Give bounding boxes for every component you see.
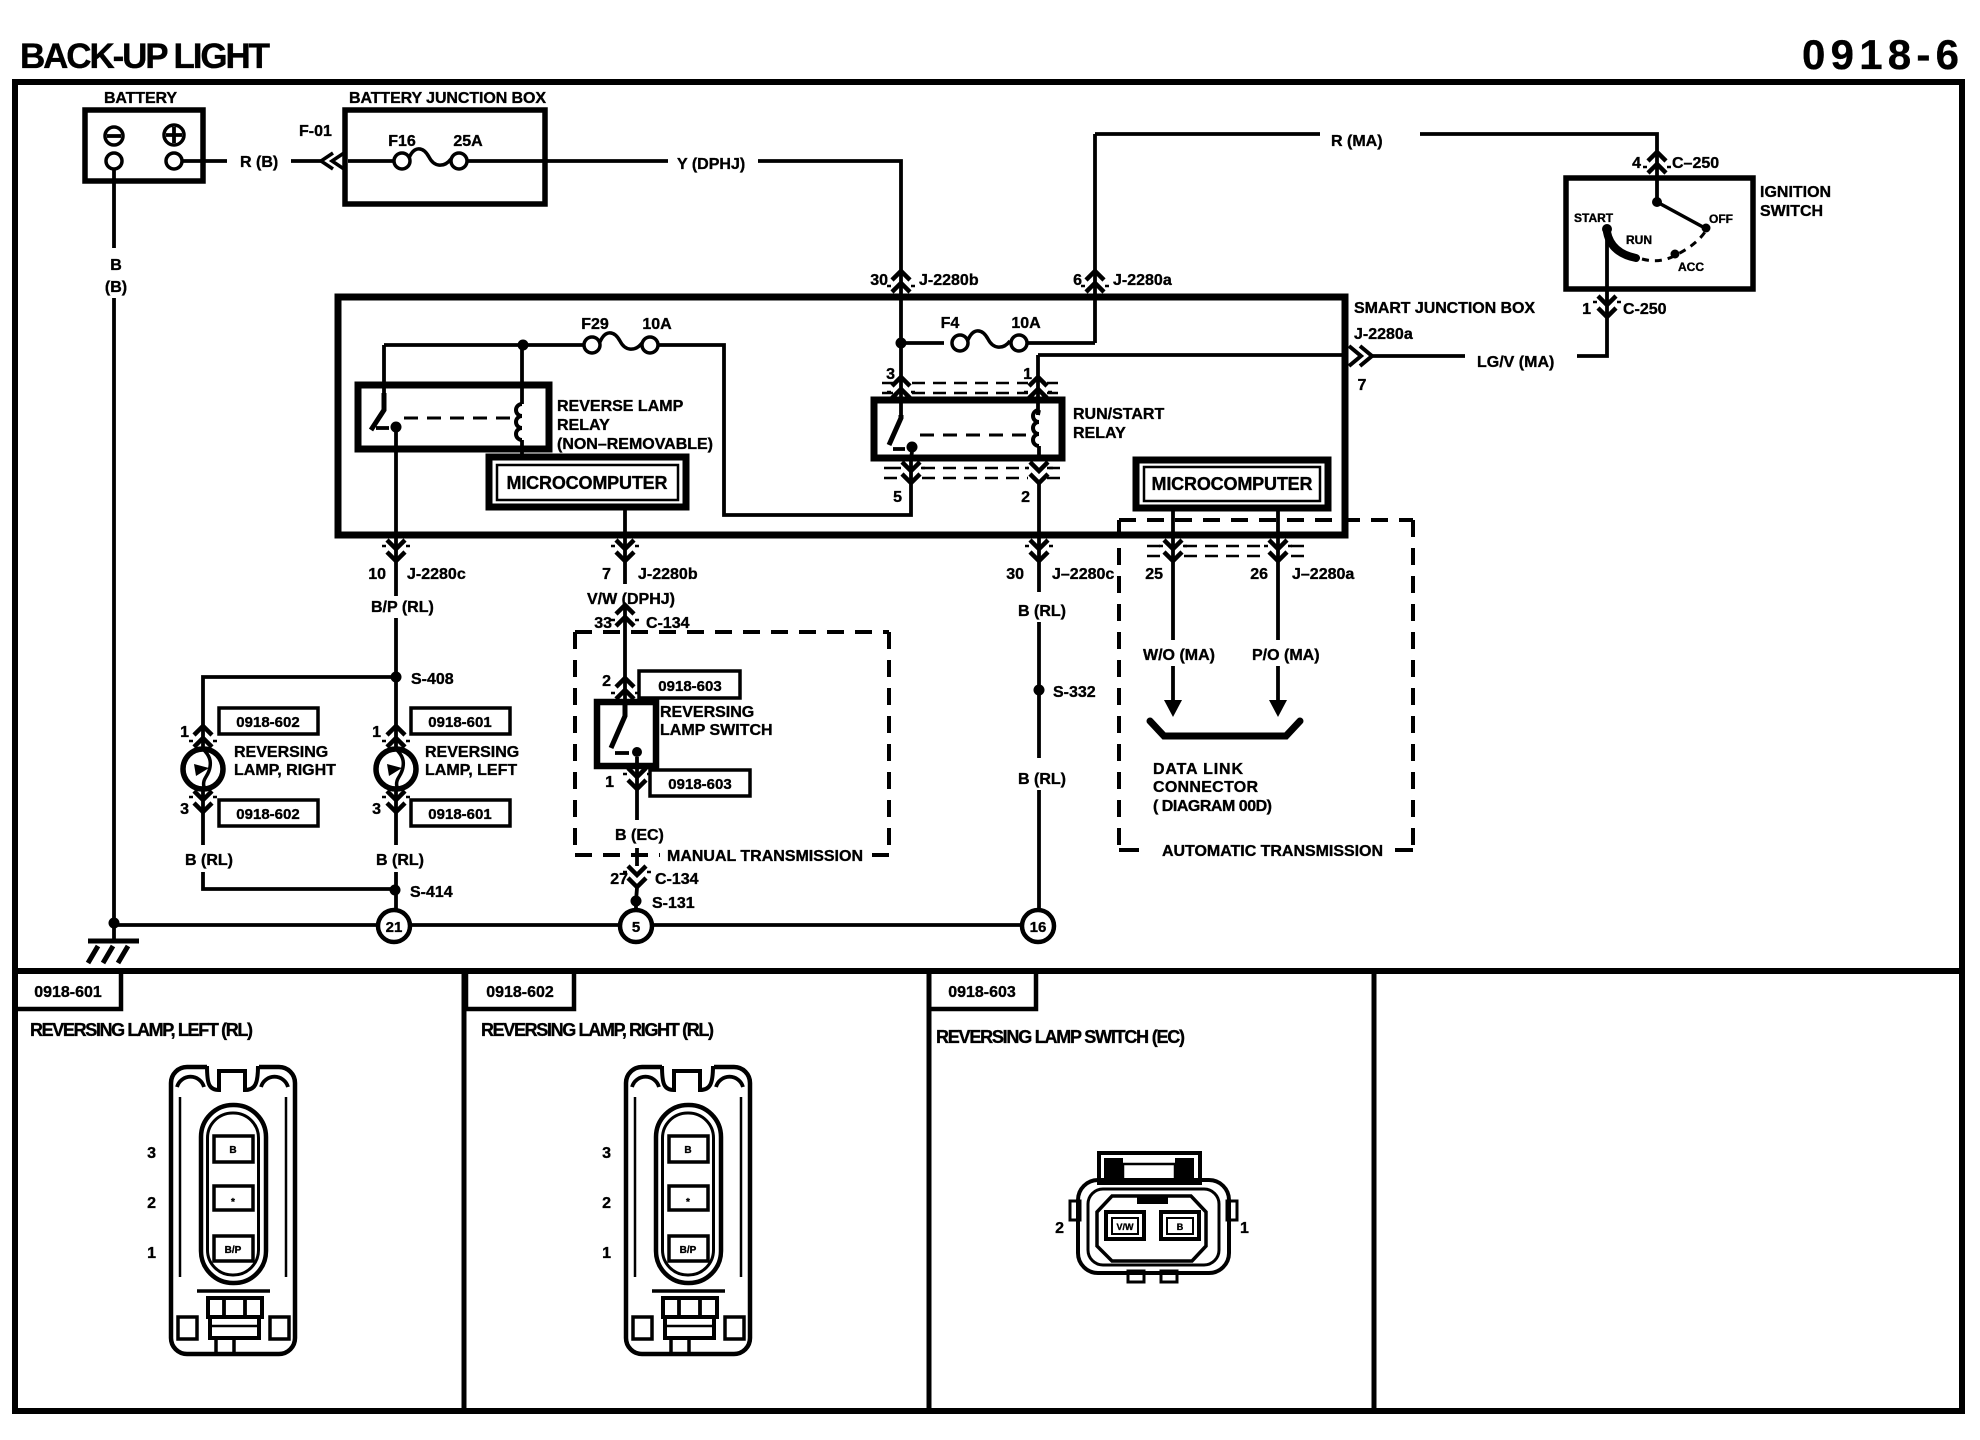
battery plus terminal [164, 125, 184, 145]
svg-text:S-408: S-408 [411, 671, 454, 688]
bottom cell divider 1 [462, 971, 467, 1411]
svg-text:P/O (MA): P/O (MA) [1252, 647, 1320, 664]
wire pin 2 down to pin 30 J-2280c [1037, 484, 1041, 592]
svg-text:OFF: OFF [1709, 212, 1733, 226]
svg-text:C-134: C-134 [655, 871, 699, 888]
svg-text:BATTERY: BATTERY [104, 90, 177, 107]
relay 2 pin 5 [911, 452, 912, 458]
relay 1 switch arm [371, 393, 384, 430]
svg-text:REVERSING: REVERSING [425, 744, 519, 761]
battery minus post [106, 153, 122, 169]
svg-text:F29: F29 [581, 316, 609, 333]
svg-text:2: 2 [602, 1195, 611, 1212]
svg-text:REVERSING LAMP, RIGHT (RL): REVERSING LAMP, RIGHT (RL) [481, 1020, 714, 1040]
wire Y (DPHJ) to pin 30 [758, 161, 901, 343]
splice S-414 [390, 885, 401, 896]
svg-text:S-131: S-131 [652, 895, 695, 912]
connector dashes pins 25-26 [1184, 546, 1268, 556]
reversing lamp right branch [203, 677, 396, 845]
pin 7 arrow out of SJB [1349, 346, 1372, 366]
svg-text:0918-603: 0918-603 [658, 678, 721, 695]
svg-text:REVERSING LAMP SWITCH (EC): REVERSING LAMP SWITCH (EC) [936, 1027, 1185, 1047]
svg-text:27: 27 [610, 871, 628, 888]
relay 1 link dashes [404, 417, 512, 420]
svg-text:B (RL): B (RL) [376, 852, 424, 869]
svg-text:1: 1 [1582, 301, 1591, 318]
relay 1 coil [520, 345, 524, 457]
SJB top internal wire [384, 345, 584, 396]
ignition internals [1655, 178, 1659, 202]
svg-text:LAMP, LEFT: LAMP, LEFT [425, 762, 517, 779]
svg-text:F4: F4 [941, 315, 960, 332]
svg-text:SWITCH: SWITCH [1760, 203, 1823, 220]
svg-text:1: 1 [180, 724, 189, 741]
svg-text:CONNECTOR: CONNECTOR [1153, 779, 1258, 796]
svg-text:V/W (DPHJ): V/W (DPHJ) [587, 591, 675, 608]
svg-text:F16: F16 [388, 133, 416, 150]
splice S-408 [391, 672, 402, 683]
svg-text:10A: 10A [1011, 315, 1041, 332]
svg-text:J-2280a: J-2280a [1354, 326, 1413, 343]
svg-text:B: B [1177, 1222, 1184, 1232]
svg-text:1: 1 [605, 774, 614, 791]
svg-text:3: 3 [602, 1145, 611, 1162]
svg-text:26: 26 [1250, 566, 1268, 583]
battery box [85, 110, 203, 181]
svg-text:S-332: S-332 [1053, 684, 1096, 701]
ignition switch box [1566, 178, 1753, 289]
svg-text:2: 2 [1055, 1220, 1064, 1237]
ground symbol [112, 923, 116, 941]
svg-text:2: 2 [147, 1195, 156, 1212]
svg-text:1: 1 [372, 724, 381, 741]
connector reversing lamp right [626, 1064, 750, 1354]
relay 2 switch arm [889, 415, 901, 445]
run/start relay box [874, 400, 1062, 458]
pin 2 arrow 0918-603 [611, 678, 639, 699]
svg-text:B: B [684, 1145, 691, 1156]
svg-text:REVERSE LAMP: REVERSE LAMP [557, 398, 684, 415]
svg-text:B: B [229, 1145, 236, 1156]
microcomputer 1 [489, 457, 686, 507]
svg-text:0918-603: 0918-603 [668, 776, 731, 793]
manual transmission dashed box [575, 632, 889, 855]
battery ground wire [112, 169, 116, 248]
svg-text:0918-601: 0918-601 [428, 806, 491, 823]
svg-text:J–2280c: J–2280c [1052, 566, 1114, 583]
ground node 21 [378, 910, 410, 942]
svg-text:REVERSING: REVERSING [234, 744, 328, 761]
ground node 5 [620, 910, 652, 942]
wire into fuse F16 [348, 159, 394, 163]
relay 2 link dashes [920, 434, 1028, 437]
svg-text:3: 3 [372, 801, 381, 818]
svg-text:( DIAGRAM 00D): ( DIAGRAM 00D) [1153, 798, 1272, 815]
svg-text:25: 25 [1145, 566, 1163, 583]
svg-text:2: 2 [602, 673, 611, 690]
svg-text:RELAY: RELAY [1073, 425, 1126, 442]
splice S-131 [631, 896, 642, 907]
svg-text:MICROCOMPUTER: MICROCOMPUTER [1152, 474, 1313, 494]
pin 27 arrow C-134 [623, 866, 651, 887]
svg-text:B/P: B/P [680, 1245, 697, 1256]
svg-text:AUTOMATIC TRANSMISSION: AUTOMATIC TRANSMISSION [1162, 843, 1383, 860]
svg-text:B (EC): B (EC) [615, 827, 664, 844]
connector arrow F-01 [321, 153, 344, 169]
svg-text:0918-602: 0918-602 [236, 806, 299, 823]
ground bus line [114, 923, 1039, 927]
svg-text:2: 2 [1021, 489, 1030, 506]
svg-text:30: 30 [1006, 566, 1024, 583]
battery plus post [166, 153, 182, 169]
svg-text:10A: 10A [642, 316, 672, 333]
svg-text:MICROCOMPUTER: MICROCOMPUTER [507, 473, 668, 493]
pin 30 arrow J-2280b [887, 271, 915, 292]
svg-text:LAMP, RIGHT: LAMP, RIGHT [234, 762, 336, 779]
svg-text:F-01: F-01 [299, 123, 332, 140]
svg-text:RUN: RUN [1626, 233, 1652, 247]
junction node [518, 340, 529, 351]
microcomputer 1 output wire pin 7 [623, 507, 627, 584]
svg-text:(B): (B) [105, 279, 127, 296]
svg-text:0918-601: 0918-601 [428, 714, 491, 731]
svg-text:B (RL): B (RL) [185, 852, 233, 869]
svg-text:J-2280b: J-2280b [919, 272, 979, 289]
svg-text:REVERSING: REVERSING [660, 704, 754, 721]
svg-text:RELAY: RELAY [557, 417, 610, 434]
microcomputer 2 [1136, 460, 1328, 508]
svg-text:1: 1 [1023, 366, 1032, 383]
svg-text:BATTERY JUNCTION BOX: BATTERY JUNCTION BOX [349, 90, 546, 107]
svg-text:MANUAL TRANSMISSION: MANUAL TRANSMISSION [667, 848, 863, 865]
reverse lamp relay box [358, 385, 549, 449]
svg-text:C–250: C–250 [1672, 155, 1719, 172]
svg-text:25A: 25A [453, 133, 483, 150]
wire R (B) to junction box [291, 159, 322, 163]
svg-text:R (B): R (B) [240, 154, 278, 171]
svg-text:BACK-UP LIGHT: BACK-UP LIGHT [20, 37, 270, 76]
mc2 wire pin 25 [1171, 508, 1175, 640]
svg-text:10: 10 [368, 566, 386, 583]
ground junction [109, 918, 120, 929]
svg-text:LG/V (MA): LG/V (MA) [1477, 354, 1554, 371]
splice S-332 [1034, 685, 1045, 696]
svg-text:1: 1 [602, 1245, 611, 1262]
svg-text:4: 4 [1632, 155, 1641, 172]
bottom cell 2 tab [466, 971, 574, 1009]
reversing lamp switch box [597, 702, 656, 766]
svg-text:R (MA): R (MA) [1331, 133, 1383, 150]
mc2 wire pin 26 [1276, 508, 1280, 640]
battery minus terminal [105, 127, 123, 145]
svg-text:3: 3 [147, 1145, 156, 1162]
pin 33 arrow C-134 [623, 604, 627, 702]
automatic transmission dashed box [1119, 520, 1413, 850]
svg-text:30: 30 [870, 272, 888, 289]
svg-text:S-414: S-414 [410, 884, 453, 901]
run/start relay pins 3 and 1 [899, 343, 903, 415]
svg-text:B: B [110, 257, 122, 274]
ground node 16 [1022, 910, 1054, 942]
ignition pin 1 wire down [1577, 232, 1607, 356]
svg-text:START: START [1574, 211, 1614, 225]
lamp right [183, 749, 223, 789]
svg-text:J-2280b: J-2280b [638, 566, 698, 583]
svg-text:33: 33 [594, 615, 612, 632]
svg-text:ACC: ACC [1678, 260, 1704, 274]
svg-text:0918-602: 0918-602 [486, 984, 554, 1001]
pin 1 arrow 0918-603 [635, 757, 639, 820]
svg-text:B (RL): B (RL) [1018, 771, 1066, 788]
svg-text:*: * [686, 1197, 690, 1208]
wire F29 to run/start relay pin 5 [658, 345, 911, 515]
data link connector [1150, 721, 1300, 736]
svg-text:0918-602: 0918-602 [236, 714, 299, 731]
svg-text:7: 7 [1358, 377, 1367, 394]
wire battery to R (B) [183, 159, 227, 163]
svg-text:DATA LINK: DATA LINK [1153, 761, 1243, 778]
svg-text:5: 5 [893, 489, 902, 506]
svg-text:(NON–REMOVABLE): (NON–REMOVABLE) [557, 436, 713, 453]
svg-text:1: 1 [1240, 1220, 1249, 1237]
svg-text:0918-601: 0918-601 [34, 984, 102, 1001]
wire R (MA) top [1095, 134, 1320, 343]
svg-text:J–2280a: J–2280a [1292, 566, 1354, 583]
svg-text:6: 6 [1073, 272, 1082, 289]
svg-text:B/P: B/P [225, 1245, 242, 1256]
svg-text:C-134: C-134 [646, 615, 690, 632]
connector dashes pins 5-2 [922, 468, 1028, 478]
svg-text:RUN/START: RUN/START [1073, 406, 1164, 423]
wire relay1 to pin 10 [394, 432, 398, 596]
svg-text:7: 7 [602, 566, 611, 583]
reversing lamp left branch [394, 682, 398, 845]
pin 6 arrow J-2280a [1081, 271, 1109, 292]
svg-text:C-250: C-250 [1623, 301, 1667, 318]
svg-text:B (RL): B (RL) [1018, 603, 1066, 620]
section divider line [15, 968, 1962, 974]
bottom cell 1 tab [15, 971, 121, 1009]
svg-text:IGNITION: IGNITION [1760, 184, 1831, 201]
svg-text:21: 21 [386, 919, 403, 936]
bottom cell divider 2 [927, 971, 932, 1411]
relay 2 pin 2 [1025, 462, 1053, 483]
battery junction box [345, 110, 545, 204]
svg-text:V/W: V/W [1117, 1222, 1135, 1232]
svg-text:3: 3 [886, 366, 895, 383]
svg-text:SMART JUNCTION BOX: SMART JUNCTION BOX [1354, 300, 1535, 317]
lamp left [376, 749, 416, 789]
svg-text:1: 1 [147, 1245, 156, 1262]
svg-text:0918-603: 0918-603 [948, 984, 1016, 1001]
svg-text:REVERSING LAMP, LEFT (RL): REVERSING LAMP, LEFT (RL) [30, 1020, 253, 1040]
smart junction box [338, 297, 1345, 535]
svg-text:16: 16 [1030, 919, 1047, 936]
relay 2 coil [1038, 410, 1039, 458]
svg-text:J-2280a: J-2280a [1113, 272, 1172, 289]
bottom cell divider 3 [1372, 971, 1377, 1411]
svg-text:LAMP SWITCH: LAMP SWITCH [660, 722, 773, 739]
connector reversing lamp switch [1070, 1153, 1237, 1282]
svg-text:J-2280c: J-2280c [407, 566, 466, 583]
wire F4 [901, 341, 944, 345]
pin 4 arrow C-250 [1643, 152, 1671, 173]
connector dashes pins 3-1 [912, 383, 1028, 393]
svg-text:5: 5 [632, 919, 640, 936]
bottom cell 3 tab [929, 971, 1036, 1009]
svg-text:Y (DPHJ): Y (DPHJ) [677, 156, 745, 173]
connector reversing lamp left [171, 1064, 295, 1354]
wire fuse to Y (DPHJ) [467, 159, 668, 163]
svg-text:B/P (RL): B/P (RL) [371, 599, 434, 616]
svg-text:3: 3 [180, 801, 189, 818]
svg-text:W/O (MA): W/O (MA) [1143, 647, 1215, 664]
switch internals [611, 702, 625, 748]
svg-text:*: * [231, 1197, 235, 1208]
